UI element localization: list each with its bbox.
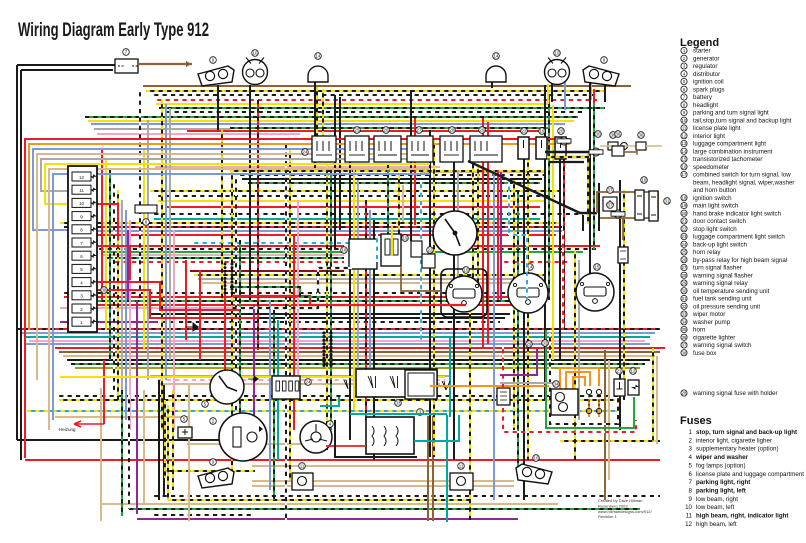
svg-text:headlight: headlight bbox=[693, 102, 718, 109]
svg-text:27: 27 bbox=[417, 128, 422, 133]
svg-text:interior light: interior light bbox=[693, 133, 725, 140]
svg-text:by-pass relay for high beam si: by-pass relay for high beam signal bbox=[693, 257, 787, 264]
svg-text:28: 28 bbox=[682, 273, 687, 278]
svg-text:fuel tank sending unit: fuel tank sending unit bbox=[693, 296, 752, 303]
svg-text:main light switch: main light switch bbox=[693, 203, 739, 210]
svg-text:8: 8 bbox=[689, 487, 693, 494]
svg-text:10: 10 bbox=[682, 118, 687, 123]
svg-text:11: 11 bbox=[686, 513, 693, 520]
svg-text:hand brake indicator light swi: hand brake indicator light switch bbox=[693, 210, 782, 217]
svg-text:1: 1 bbox=[689, 429, 693, 436]
svg-text:and horn button: and horn button bbox=[693, 187, 737, 194]
svg-text:stop, turn signal and back-up: stop, turn signal and back-up light bbox=[696, 429, 797, 436]
svg-text:12: 12 bbox=[79, 175, 84, 180]
svg-text:door contact switch: door contact switch bbox=[693, 218, 747, 225]
svg-text:35: 35 bbox=[682, 327, 687, 332]
svg-text:11: 11 bbox=[300, 464, 305, 469]
svg-text:interior light, cigarette ligh: interior light, cigarette ligher bbox=[696, 437, 772, 444]
svg-text:29: 29 bbox=[480, 128, 485, 133]
svg-text:12: 12 bbox=[685, 521, 692, 528]
svg-text:27: 27 bbox=[682, 265, 687, 270]
svg-text:24: 24 bbox=[682, 242, 687, 247]
svg-text:stop light switch: stop light switch bbox=[693, 226, 737, 233]
svg-text:speedometer: speedometer bbox=[693, 164, 729, 171]
svg-text:14: 14 bbox=[316, 54, 321, 59]
svg-text:34: 34 bbox=[682, 319, 687, 324]
svg-text:Heizung: Heizung bbox=[59, 427, 76, 432]
svg-text:31: 31 bbox=[682, 296, 687, 301]
svg-text:combined switch for turn signa: combined switch for turn signal, low bbox=[693, 172, 791, 179]
svg-text:26: 26 bbox=[384, 128, 389, 133]
svg-text:12: 12 bbox=[631, 369, 636, 374]
svg-text:10: 10 bbox=[534, 456, 539, 461]
svg-text:24: 24 bbox=[303, 150, 308, 155]
svg-text:Revision 1: Revision 1 bbox=[598, 514, 617, 519]
svg-text:16: 16 bbox=[682, 164, 687, 169]
svg-text:www.hillmandesigns.com/912/: www.hillmandesigns.com/912/ bbox=[598, 509, 652, 514]
svg-text:12: 12 bbox=[682, 133, 687, 138]
svg-text:23: 23 bbox=[682, 234, 687, 239]
svg-text:10: 10 bbox=[685, 504, 692, 511]
svg-text:spark plugs: spark plugs bbox=[693, 86, 725, 93]
svg-text:34: 34 bbox=[554, 382, 559, 387]
svg-text:transistorized tachometer: transistorized tachometer bbox=[693, 156, 762, 163]
svg-text:25: 25 bbox=[355, 128, 360, 133]
svg-text:turn signal flasher: turn signal flasher bbox=[693, 265, 742, 272]
svg-text:19: 19 bbox=[540, 129, 545, 134]
svg-text:ignition switch: ignition switch bbox=[693, 195, 732, 202]
svg-text:warning signal flasher: warning signal flasher bbox=[692, 272, 753, 279]
svg-text:33: 33 bbox=[543, 341, 548, 346]
svg-text:warning signal switch: warning signal switch bbox=[692, 342, 752, 349]
svg-text:28: 28 bbox=[682, 391, 687, 396]
svg-text:5: 5 bbox=[689, 462, 693, 469]
svg-text:battery: battery bbox=[693, 94, 713, 101]
svg-text:parking light, left: parking light, left bbox=[696, 487, 746, 494]
svg-text:tail,stop,turn signal and back: tail,stop,turn signal and backup light bbox=[693, 117, 792, 124]
svg-text:25: 25 bbox=[682, 250, 687, 255]
svg-text:supplementary heater (option): supplementary heater (option) bbox=[696, 446, 779, 453]
svg-text:back-up light switch: back-up light switch bbox=[693, 241, 748, 248]
svg-text:20: 20 bbox=[682, 211, 687, 216]
svg-text:18: 18 bbox=[682, 195, 687, 200]
svg-text:wiper motor: wiper motor bbox=[692, 311, 725, 318]
svg-text:starter: starter bbox=[693, 48, 711, 55]
svg-text:17: 17 bbox=[682, 172, 687, 177]
svg-text:fuse box: fuse box bbox=[693, 350, 717, 357]
svg-text:warning signal relay: warning signal relay bbox=[692, 280, 749, 287]
svg-text:19: 19 bbox=[682, 203, 687, 208]
svg-text:33: 33 bbox=[396, 401, 401, 406]
svg-text:21: 21 bbox=[682, 219, 687, 224]
svg-text:15: 15 bbox=[595, 265, 600, 270]
svg-text:large combination instrument: large combination instrument bbox=[693, 148, 773, 155]
svg-text:washer pump: washer pump bbox=[692, 319, 731, 326]
svg-text:15: 15 bbox=[682, 157, 687, 162]
svg-text:10: 10 bbox=[253, 51, 258, 56]
svg-text:9: 9 bbox=[689, 496, 693, 503]
svg-text:11: 11 bbox=[459, 464, 464, 469]
svg-text:21: 21 bbox=[617, 369, 622, 374]
svg-text:38: 38 bbox=[682, 350, 687, 355]
svg-text:luggage compartment light: luggage compartment light bbox=[693, 141, 766, 148]
svg-text:low beam, right: low beam, right bbox=[696, 496, 738, 503]
svg-text:16: 16 bbox=[464, 268, 469, 273]
svg-text:2: 2 bbox=[689, 437, 693, 444]
svg-text:20: 20 bbox=[559, 129, 564, 134]
svg-text:horn: horn bbox=[693, 327, 706, 334]
svg-text:warning signal fuse with holde: warning signal fuse with holder bbox=[692, 390, 778, 397]
svg-text:26: 26 bbox=[682, 257, 687, 262]
svg-text:22: 22 bbox=[522, 129, 527, 134]
svg-text:24: 24 bbox=[306, 380, 311, 385]
svg-text:36: 36 bbox=[639, 133, 644, 138]
svg-text:13: 13 bbox=[682, 141, 687, 146]
svg-text:distributor: distributor bbox=[693, 71, 720, 78]
svg-text:wiper and washer: wiper and washer bbox=[695, 454, 749, 461]
svg-text:10: 10 bbox=[555, 51, 560, 56]
svg-text:37: 37 bbox=[608, 188, 613, 193]
svg-text:horn relay: horn relay bbox=[693, 249, 721, 256]
svg-text:low beam, left: low beam, left bbox=[696, 504, 734, 511]
svg-text:3: 3 bbox=[689, 446, 693, 453]
svg-text:Created by Dave Hillman: Created by Dave Hillman bbox=[598, 498, 642, 503]
svg-text:29: 29 bbox=[527, 342, 532, 347]
svg-text:14: 14 bbox=[682, 149, 687, 154]
svg-text:high beam, right, indicator li: high beam, right, indicator light bbox=[696, 513, 788, 520]
svg-text:parking light, right: parking light, right bbox=[696, 479, 750, 486]
svg-text:4: 4 bbox=[689, 454, 693, 461]
svg-text:license plate and luggage comp: license plate and luggage compartment bbox=[696, 471, 804, 478]
svg-text:33: 33 bbox=[682, 312, 687, 317]
svg-text:Fuses: Fuses bbox=[680, 415, 712, 427]
svg-text:19: 19 bbox=[642, 178, 647, 183]
svg-text:beam, headlight signal, wiper,: beam, headlight signal, wiper,washer bbox=[693, 179, 794, 186]
svg-text:30: 30 bbox=[682, 288, 687, 293]
svg-text:28: 28 bbox=[450, 128, 455, 133]
svg-text:11: 11 bbox=[79, 188, 84, 193]
svg-text:30: 30 bbox=[596, 132, 601, 137]
svg-text:regulator: regulator bbox=[693, 63, 717, 70]
svg-text:fog lamps (option): fog lamps (option) bbox=[696, 462, 746, 469]
svg-text:parking and turn signal light: parking and turn signal light bbox=[693, 110, 769, 117]
svg-text:36: 36 bbox=[616, 132, 621, 137]
svg-text:Rosenberg 2003: Rosenberg 2003 bbox=[598, 503, 628, 508]
svg-text:29: 29 bbox=[682, 281, 687, 286]
svg-text:38: 38 bbox=[102, 288, 107, 293]
svg-text:37: 37 bbox=[608, 203, 613, 208]
svg-text:22: 22 bbox=[428, 248, 433, 253]
svg-text:14: 14 bbox=[528, 265, 533, 270]
svg-text:license plate light: license plate light bbox=[693, 125, 741, 132]
svg-text:18: 18 bbox=[342, 248, 347, 253]
svg-text:oil pressure sending unit: oil pressure sending unit bbox=[693, 303, 760, 310]
svg-text:14: 14 bbox=[494, 54, 499, 59]
svg-text:generator: generator bbox=[693, 55, 720, 62]
svg-text:cigarette lighter: cigarette lighter bbox=[693, 334, 735, 341]
svg-text:Wiring Diagram Early Type 912: Wiring Diagram Early Type 912 bbox=[18, 20, 209, 41]
svg-text:32: 32 bbox=[682, 304, 687, 309]
svg-text:oil temperature sending unit: oil temperature sending unit bbox=[693, 288, 770, 295]
svg-text:31: 31 bbox=[665, 199, 670, 204]
svg-text:11: 11 bbox=[682, 126, 687, 131]
svg-text:37: 37 bbox=[682, 343, 687, 348]
svg-text:high beam, left: high beam, left bbox=[696, 521, 737, 528]
svg-text:36: 36 bbox=[682, 335, 687, 340]
svg-text:ignition coil: ignition coil bbox=[693, 79, 724, 86]
svg-text:19: 19 bbox=[403, 236, 408, 241]
svg-text:luggage compartment light swit: luggage compartment light switch bbox=[693, 234, 785, 241]
svg-text:6: 6 bbox=[689, 471, 693, 478]
svg-text:7: 7 bbox=[689, 479, 693, 486]
svg-text:22: 22 bbox=[682, 226, 687, 231]
svg-text:10: 10 bbox=[79, 201, 84, 206]
